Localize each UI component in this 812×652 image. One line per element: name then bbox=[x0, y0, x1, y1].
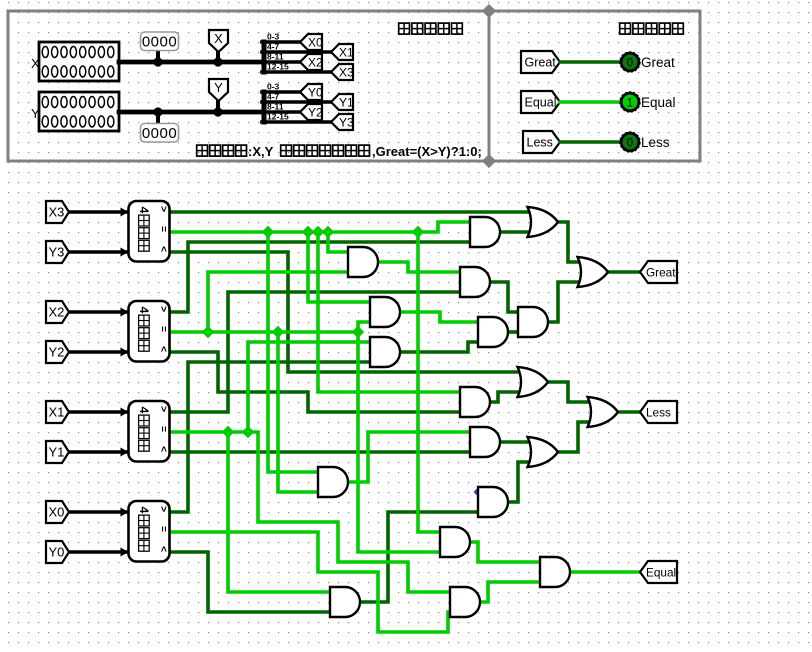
hex display Y "0000" bbox=[141, 124, 179, 143]
wire U12 out bbox=[490, 392, 518, 402]
arrowhead at comparator input (Y0) bbox=[121, 548, 129, 557]
AND gate U10 bbox=[370, 337, 400, 367]
C2= wire bbox=[168, 330, 358, 334]
wire Y0 to comparator bbox=[69, 550, 126, 553]
svg-text:X: X bbox=[214, 31, 223, 46]
splitter Y bbox=[262, 92, 267, 122]
wire U1 out bbox=[348, 432, 470, 482]
bus wire Y bbox=[119, 110, 263, 115]
svg-text:12-15: 12-15 bbox=[267, 62, 289, 72]
C1= branch x318 bbox=[318, 232, 460, 392]
hex display X "0000" bbox=[141, 32, 179, 51]
wire U6 out bbox=[378, 262, 460, 272]
wire Y1 to comparator bbox=[69, 450, 126, 453]
input tunnel Y0 bbox=[46, 541, 69, 563]
svg-text:Less: Less bbox=[527, 136, 553, 150]
bus stem from tunnel Y bbox=[216, 101, 220, 112]
wire U11 out bbox=[548, 282, 578, 322]
svg-text:<: < bbox=[158, 446, 169, 452]
C3= branch x248 bbox=[248, 342, 370, 432]
tunnel X3 (points left) bbox=[331, 64, 353, 80]
bus junction (218,62) bbox=[213, 57, 222, 66]
AND gate U15 bbox=[478, 487, 508, 517]
arrowhead at comparator input (X3) bbox=[121, 208, 129, 217]
arrowhead at comparator input (X0) bbox=[121, 508, 129, 517]
C2= branch x358 up bbox=[358, 322, 370, 332]
svg-text:X3: X3 bbox=[49, 205, 65, 220]
wire U2 out bbox=[470, 542, 540, 562]
C3< wire bbox=[168, 450, 470, 454]
output tag Equal (in panel) bbox=[521, 91, 560, 113]
svg-text:=: = bbox=[158, 326, 169, 332]
svg-text:4: 4 bbox=[137, 307, 151, 314]
comparator CMP4 4位比较 bbox=[129, 501, 170, 562]
OR gate U17 bbox=[528, 207, 559, 237]
AND gate U9 bbox=[478, 317, 508, 347]
C4> wire bbox=[168, 362, 370, 512]
OR gate U21 bbox=[588, 397, 619, 427]
AND gate U8 bbox=[370, 297, 400, 327]
LED Less (0) bbox=[621, 133, 639, 151]
svg-text:>: > bbox=[158, 306, 169, 312]
tunnel Y1 (points left) bbox=[331, 94, 353, 110]
junction (328,232) bbox=[322, 226, 334, 238]
AND gate U1 bbox=[318, 467, 348, 497]
bus junction (218,112) bbox=[213, 107, 222, 116]
wire Y2 to comparator bbox=[69, 350, 126, 353]
unconnected input dot U15 (478,492) bbox=[473, 487, 482, 496]
svg-text:X2: X2 bbox=[308, 56, 323, 70]
input tunnel X3 bbox=[46, 201, 69, 223]
svg-text:Equal: Equal bbox=[641, 95, 676, 110]
comparator CMP3 4位比较 bbox=[129, 401, 170, 462]
title 输入引脚区 bbox=[399, 23, 410, 34]
svg-text:X1: X1 bbox=[49, 405, 65, 420]
wire U21 out bbox=[618, 410, 640, 414]
svg-text:X2: X2 bbox=[49, 305, 65, 320]
svg-text:12-15: 12-15 bbox=[267, 112, 289, 122]
svg-text:>: > bbox=[158, 506, 169, 512]
C1= branch x308 bbox=[308, 232, 370, 302]
input tunnel X2 bbox=[46, 301, 69, 323]
svg-text:<: < bbox=[158, 246, 169, 252]
wire U5 out bbox=[500, 230, 528, 234]
svg-text:Y0: Y0 bbox=[49, 545, 65, 560]
comparator CMP2 4位比较 bbox=[129, 301, 170, 362]
C4= wire bbox=[168, 532, 450, 632]
input tunnel Y1 bbox=[46, 441, 69, 463]
tunnel X0 (points left) bbox=[300, 34, 322, 50]
LED Equal (1) bbox=[621, 93, 639, 111]
svg-text:X0: X0 bbox=[49, 505, 65, 520]
junction (248,432) bbox=[242, 426, 254, 438]
C2> wire bbox=[168, 242, 470, 312]
tunnel X2 (points left) bbox=[300, 54, 322, 70]
C1= wire bbox=[168, 222, 470, 232]
svg-text:Equal: Equal bbox=[646, 566, 676, 580]
junction (268,232) bbox=[262, 226, 274, 238]
input tunnel X0 bbox=[46, 501, 69, 523]
C2= branch x278 bbox=[278, 332, 318, 492]
svg-text:Y3: Y3 bbox=[339, 116, 354, 130]
output tunnel Less bbox=[640, 401, 677, 423]
wire X0 to comparator bbox=[69, 510, 126, 513]
svg-text:>: > bbox=[158, 406, 169, 412]
wire U3 out bbox=[570, 570, 640, 574]
C2= branch x358 down bbox=[358, 332, 440, 552]
bus stem to hex display X bbox=[156, 50, 160, 62]
wire Less to LED bbox=[560, 140, 621, 144]
svg-text:>: > bbox=[158, 206, 169, 212]
wire X3 to comparator bbox=[69, 210, 126, 213]
svg-text:Y1: Y1 bbox=[339, 96, 354, 110]
svg-text:Y3: Y3 bbox=[49, 245, 65, 260]
output tag Less (in panel) bbox=[523, 131, 560, 153]
comparator CMP1 4位比较 bbox=[129, 201, 170, 262]
caption 电路功能：X,Y进行无符号比较，Great=(X>Y)?1:0; bbox=[197, 145, 208, 156]
junction (318,232) bbox=[312, 226, 324, 238]
output tunnel Equal bbox=[640, 561, 677, 583]
wire U14 out bbox=[360, 512, 478, 602]
svg-text:X1: X1 bbox=[339, 46, 354, 60]
C2= branch x208 bbox=[208, 272, 348, 332]
junction (278,332) bbox=[272, 326, 284, 338]
svg-text:0000: 0000 bbox=[142, 125, 177, 142]
C3> wire bbox=[168, 292, 460, 412]
wire U9 out bbox=[508, 330, 518, 334]
junction (308,232) bbox=[302, 226, 314, 238]
svg-text:8-11: 8-11 bbox=[267, 52, 284, 62]
wire U17 out bbox=[558, 222, 578, 262]
wire Equal to LED bbox=[560, 100, 621, 104]
AND gate U12 bbox=[460, 387, 490, 417]
svg-text:X: X bbox=[31, 56, 40, 71]
junction (228,432) bbox=[222, 426, 234, 438]
svg-text:Great: Great bbox=[641, 55, 675, 70]
arrowhead at comparator input (X2) bbox=[121, 308, 129, 317]
output tag Great (in panel) bbox=[521, 51, 560, 73]
junction (418,232) bbox=[412, 226, 424, 238]
tunnel Y (points down) bbox=[209, 79, 228, 101]
bus junction (158,112) bbox=[153, 107, 162, 116]
C3= wire bbox=[168, 432, 450, 592]
arrowhead at comparator input (X1) bbox=[121, 408, 129, 417]
frame junction bottom bbox=[482, 154, 496, 168]
wire U13 out bbox=[500, 440, 528, 444]
input pin X (16-bit) bbox=[39, 42, 119, 81]
wire U7 out bbox=[490, 282, 518, 312]
svg-text:8-11: 8-11 bbox=[267, 102, 284, 112]
wire U15 out bbox=[508, 462, 528, 502]
svg-text::X,Y: :X,Y bbox=[248, 144, 274, 159]
wire U4 out bbox=[480, 582, 540, 602]
junction (208,332) bbox=[202, 326, 214, 338]
input tunnel Y3 bbox=[46, 241, 69, 263]
title 输出引脚区 bbox=[620, 23, 631, 34]
AND gate U14 bbox=[330, 587, 360, 617]
OR gate U20 bbox=[528, 437, 559, 467]
svg-text:=: = bbox=[158, 226, 169, 232]
svg-text:=: = bbox=[158, 526, 169, 532]
bus stem to hex display Y bbox=[156, 112, 160, 124]
AND gate U5 bbox=[470, 217, 500, 247]
svg-text:1: 1 bbox=[627, 98, 633, 110]
input pin area frame bbox=[8, 11, 489, 161]
wire U19 out bbox=[548, 382, 588, 402]
wire U10 out bbox=[400, 342, 478, 352]
tunnel X (points down) bbox=[209, 30, 228, 52]
AND gate U7 bbox=[460, 267, 490, 297]
tunnel Y0 (points left) bbox=[300, 84, 322, 100]
svg-text:4-7: 4-7 bbox=[267, 42, 280, 52]
input tunnel X1 bbox=[46, 401, 69, 423]
arrowhead at comparator input (Y3) bbox=[121, 248, 129, 257]
tunnel Y3 (points left) bbox=[331, 114, 353, 130]
wire U18 out bbox=[608, 270, 640, 274]
svg-text:Equal: Equal bbox=[525, 96, 557, 110]
svg-text:Great: Great bbox=[525, 56, 557, 70]
svg-text:Y1: Y1 bbox=[49, 445, 65, 460]
svg-text:X3: X3 bbox=[339, 66, 354, 80]
C1< wire bbox=[168, 252, 518, 372]
svg-text:4: 4 bbox=[137, 207, 151, 214]
output tunnel Great bbox=[640, 261, 677, 283]
svg-text:,Great=(X>Y)?1:0;: ,Great=(X>Y)?1:0; bbox=[372, 144, 482, 159]
C1= branch x328 bbox=[328, 232, 348, 252]
arrowhead at comparator input (Y1) bbox=[121, 448, 129, 457]
svg-text:<: < bbox=[158, 546, 169, 552]
arrowhead at comparator input (Y2) bbox=[121, 348, 129, 357]
svg-text:Great: Great bbox=[646, 266, 676, 280]
bus wire X bbox=[119, 60, 263, 65]
svg-text:<: < bbox=[158, 346, 169, 352]
svg-text:4: 4 bbox=[137, 407, 151, 414]
svg-text:Less: Less bbox=[641, 135, 670, 150]
svg-text:0-3: 0-3 bbox=[267, 32, 280, 42]
AND gate U3 bbox=[540, 557, 570, 587]
svg-text:0: 0 bbox=[627, 138, 633, 150]
AND gate U6 bbox=[348, 247, 378, 277]
frame junction top bbox=[482, 4, 496, 18]
svg-text:Y2: Y2 bbox=[308, 106, 323, 120]
AND gate U4 bbox=[450, 587, 480, 617]
C1= branch x418 bbox=[418, 232, 440, 532]
C2< wire bbox=[168, 352, 460, 412]
C3= branch x228 bbox=[228, 432, 330, 592]
svg-text:Y: Y bbox=[214, 80, 223, 95]
svg-text:Y2: Y2 bbox=[49, 345, 65, 360]
LED Great (0) bbox=[621, 53, 639, 71]
wire U20 out bbox=[558, 422, 588, 452]
AND gate U13 bbox=[470, 427, 500, 457]
svg-text:0-3: 0-3 bbox=[267, 82, 280, 92]
AND gate U11 bbox=[518, 307, 548, 337]
splitter X bbox=[262, 42, 267, 72]
wire X1 to comparator bbox=[69, 410, 126, 413]
svg-text:=: = bbox=[158, 426, 169, 432]
output pin area frame bbox=[489, 11, 700, 161]
svg-text:4: 4 bbox=[137, 507, 151, 514]
OR gate U19 bbox=[518, 367, 549, 397]
OR gate U18 bbox=[578, 257, 609, 287]
svg-text:Y0: Y0 bbox=[308, 86, 323, 100]
wire U8 out bbox=[400, 312, 478, 322]
svg-text:Less: Less bbox=[646, 406, 671, 420]
svg-text:4-7: 4-7 bbox=[267, 92, 280, 102]
svg-text:X0: X0 bbox=[308, 36, 323, 50]
wire Y3 to comparator bbox=[69, 250, 126, 253]
wire X2 to comparator bbox=[69, 310, 126, 313]
wire Great to LED bbox=[560, 60, 621, 64]
bus junction (158,62) bbox=[153, 57, 162, 66]
C4< wire bbox=[168, 552, 330, 612]
tunnel X1 (points left) bbox=[331, 44, 353, 60]
svg-text:Y: Y bbox=[31, 106, 40, 121]
AND gate U2 bbox=[440, 527, 470, 557]
C1> wire bbox=[168, 210, 528, 214]
bus stem from tunnel X bbox=[216, 52, 220, 62]
svg-text:0000: 0000 bbox=[142, 34, 177, 51]
C1= branch x268 bbox=[268, 232, 318, 472]
input pin Y (16-bit) bbox=[39, 92, 119, 131]
junction (358,332) bbox=[352, 326, 364, 338]
input tunnel Y2 bbox=[46, 341, 69, 363]
svg-text:0: 0 bbox=[627, 58, 633, 70]
tunnel Y2 (points left) bbox=[300, 104, 322, 120]
